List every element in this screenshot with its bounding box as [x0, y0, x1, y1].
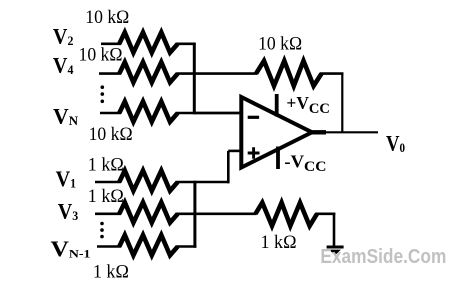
svg-text:VN-1: VN-1 [51, 236, 91, 261]
resistor 1 kOhm (to ground) [256, 203, 318, 226]
wire feedback left (bus to resistor) [194, 72, 257, 75]
wire feedback right [320, 72, 343, 75]
svg-text:10 kΩ: 10 kΩ [258, 34, 302, 55]
svg-text:V4: V4 [53, 53, 74, 78]
wire VN-1 row to bus [177, 245, 197, 248]
wire V2 input lead [101, 42, 121, 45]
svg-text:1 kΩ: 1 kΩ [88, 155, 124, 176]
svg-text:V2: V2 [53, 24, 74, 49]
svg-text:V1: V1 [56, 166, 77, 191]
wire ground resistor right [316, 213, 336, 216]
svg-text:V3: V3 [58, 199, 79, 224]
resistor 10 kOhm (feedback) [256, 61, 322, 86]
wire V2 resistor to inverting bus [177, 42, 196, 45]
svg-text:1 kΩ: 1 kΩ [93, 262, 129, 283]
+VCC supply pin [275, 94, 279, 117]
wire V4 input lead [99, 72, 121, 75]
svg-text:V0: V0 [386, 131, 405, 156]
resistor 10 kOhm (VN input) [119, 102, 177, 122]
wire V3 input lead [95, 213, 121, 216]
wire V3 row to ground resistor [177, 213, 257, 216]
wire feedback down leg to output [341, 73, 343, 134]
svg-text:VN: VN [53, 103, 79, 128]
resistor 1 kOhm (V3 input) [119, 202, 177, 222]
resistor 1 kOhm (V1 input) [119, 171, 177, 191]
op-amp non-inverting (+) marker [248, 147, 260, 159]
wire inverting input to op-amp [194, 112, 243, 115]
svg-text:10 kΩ: 10 kΩ [89, 124, 133, 145]
resistor 1 kOhm (VN-1 input) [119, 235, 177, 255]
svg-text:1 kΩ: 1 kΩ [88, 186, 124, 207]
node: non-inverting input bus (vertical) [193, 181, 196, 248]
wire V1 input lead [95, 181, 121, 184]
svg-text:-VCC: -VCC [284, 152, 326, 175]
op-amp inverting (-) marker [248, 116, 259, 119]
resistor 10 kOhm (V2 input) [119, 32, 177, 52]
resistor 10 kOhm (V4 input) [119, 62, 177, 82]
wire V4 resistor to inverting bus [177, 72, 196, 75]
wire non-inverting riser (vertical) [227, 151, 230, 183]
ellipsis dots (bottom input group) [100, 222, 104, 239]
ellipsis dots (top input group) [101, 85, 105, 103]
svg-text:10 kΩ: 10 kΩ [85, 7, 129, 28]
svg-text:1 kΩ: 1 kΩ [261, 232, 297, 253]
wire output stub (thick at apex) [311, 130, 326, 134]
wire V1 row to non-inverting riser [177, 181, 230, 184]
node: inverting input bus (vertical) [193, 43, 196, 115]
svg-text:ExamSide.Com: ExamSide.Com [320, 246, 446, 268]
-VCC supply pin [276, 147, 280, 170]
wire VN-1 input lead [97, 245, 121, 248]
wire VN input lead [100, 112, 121, 115]
svg-text:+VCC: +VCC [286, 93, 330, 117]
svg-text:10 kΩ: 10 kΩ [79, 45, 123, 66]
wire ground down leg [333, 213, 336, 247]
wire non-inverting input to op-amp [228, 150, 243, 153]
wire VN resistor to inverting bus [177, 112, 196, 115]
op-amp U1 (triangle) [241, 97, 312, 168]
wire output to V0 [326, 131, 378, 133]
ground symbol [327, 247, 344, 255]
